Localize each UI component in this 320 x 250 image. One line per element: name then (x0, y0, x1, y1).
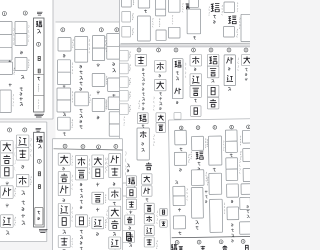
page P1 (top-left writing sheet) (0, 0, 53, 119)
page F (bottom-right writing sheet) (169, 119, 266, 250)
page P3 (right-middle reading sheet) (120, 47, 253, 250)
page P2 (top-middle writing sheet) (56, 22, 120, 140)
page B (top-right writing sheet, cut) (120, 0, 253, 45)
page E (bottom-middle reading sheet) (53, 139, 123, 250)
page D (bottom-left reading sheet) (0, 122, 47, 242)
